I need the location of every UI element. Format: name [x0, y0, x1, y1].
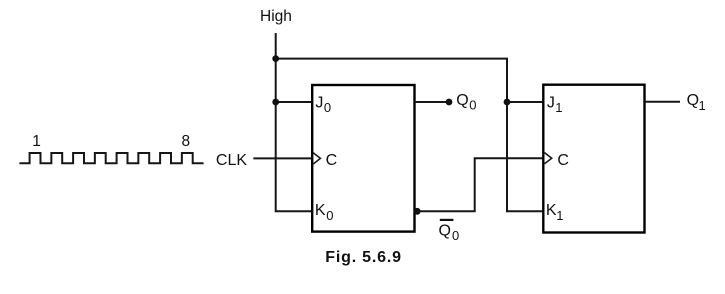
svg-text:0: 0: [326, 208, 333, 223]
wire High vertical down to K0 level then into K0: [276, 33, 313, 211]
clock chevron U1: [313, 153, 320, 164]
svg-text:1: 1: [555, 100, 562, 115]
svg-text:1: 1: [556, 208, 563, 223]
wire Q0 output: [415, 101, 450, 103]
wire Q1 output: [645, 101, 681, 103]
node junction dot J0 branch: [272, 99, 279, 106]
svg-text:J: J: [315, 95, 323, 112]
wire top horizontal branch then down to K1: [276, 59, 544, 212]
svg-text:J: J: [547, 95, 555, 112]
svg-text:Q: Q: [456, 92, 468, 109]
svg-text:High: High: [260, 8, 292, 25]
svg-text:K: K: [546, 202, 557, 219]
node junction dot J1 branch: [504, 99, 511, 106]
svg-text:C: C: [557, 152, 569, 169]
svg-text:0: 0: [324, 100, 331, 115]
clock waveform (8 pulses): [19, 153, 203, 163]
svg-text:0: 0: [469, 98, 476, 113]
wire CLK to C input of FF0: [253, 157, 312, 159]
svg-text:8: 8: [182, 133, 191, 150]
flip-flop U1 box: [312, 85, 414, 232]
wire Q0bar to C input of FF1: [417, 158, 543, 211]
svg-text:K: K: [315, 202, 326, 219]
svg-text:C: C: [326, 152, 338, 169]
svg-text:Fig. 5.6.9: Fig. 5.6.9: [325, 249, 401, 266]
node terminal dot Q0: [446, 99, 453, 106]
svg-text:Q: Q: [687, 92, 699, 109]
svg-text:1: 1: [32, 133, 41, 150]
svg-text:Q: Q: [439, 222, 451, 239]
svg-text:0: 0: [452, 228, 459, 243]
flip-flop U2 box: [543, 85, 644, 233]
wire J0: [276, 101, 313, 103]
svg-text:1: 1: [699, 98, 706, 113]
node junction dot Q0bar on U1 edge: [414, 208, 421, 215]
node junction dot top branch: [272, 55, 279, 62]
svg-text:CLK: CLK: [216, 152, 247, 169]
clock chevron U2: [545, 153, 552, 164]
wire J1: [507, 101, 543, 103]
